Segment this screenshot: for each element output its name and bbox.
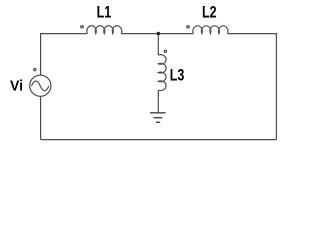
wire L1 to node [121, 33, 158, 35]
svg-text:L2: L2 [202, 3, 217, 21]
wire bottom rail [41, 139, 277, 141]
wire node to L2 [158, 33, 193, 35]
svg-text:L3: L3 [170, 66, 185, 84]
svg-text:Vi: Vi [10, 78, 23, 95]
inductor L1 [87, 26, 122, 34]
inductor L2 [193, 26, 228, 34]
wire source bottom [40, 96, 42, 139]
wire node down to L3 [157, 34, 159, 56]
node junction dot [157, 32, 161, 36]
ground [150, 113, 166, 123]
wire top-right segment [228, 34, 277, 140]
source Vi circle [30, 75, 51, 96]
pin marker L3 [164, 50, 166, 52]
pin marker L2 [187, 26, 190, 28]
source Vi sine wave [32, 81, 49, 91]
pin marker L1 [81, 26, 84, 28]
svg-text:L1: L1 [97, 3, 112, 21]
inductor L3 [158, 55, 166, 91]
wire top-left segment [41, 34, 88, 76]
pin marker source [34, 68, 36, 70]
wire L3 to ground [157, 90, 159, 112]
